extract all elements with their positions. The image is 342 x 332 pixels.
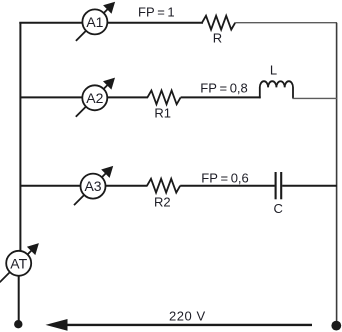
resistor R [202, 16, 235, 30]
inductor L [260, 81, 293, 98]
resistor R2 [147, 179, 180, 193]
wire 220 V arrow line [46, 319, 313, 331]
svg-text:FP = 0,6: FP = 0,6 [201, 171, 248, 186]
capacitor C [276, 172, 282, 199]
ammeter A1 [76, 2, 115, 41]
ammeter AT [0, 243, 39, 282]
svg-text:A1: A1 [86, 14, 103, 30]
node left (junction dot) [14, 320, 22, 328]
svg-text:R: R [213, 31, 222, 46]
wire top branch right segment [235, 22, 337, 24]
svg-text:220 V: 220 V [169, 309, 206, 324]
svg-text:L: L [270, 63, 277, 78]
wire branch 2 right segment [293, 97, 338, 99]
wire branch 3 right segment [282, 185, 337, 187]
wire branch 3 left segment [20, 185, 148, 187]
svg-text:A3: A3 [84, 178, 101, 194]
svg-text:FP = 0,8: FP = 0,8 [200, 81, 247, 96]
wire left vertical bus upper [19, 22, 21, 263]
svg-text:FP = 1: FP = 1 [138, 5, 175, 20]
wire right vertical bus [336, 23, 338, 326]
svg-text:AT: AT [10, 255, 27, 271]
ammeter A2 [76, 78, 115, 117]
svg-text:R1: R1 [154, 105, 171, 120]
resistor R1 [147, 91, 180, 105]
wire top branch left segment [19, 22, 203, 24]
wire left vertical bus lower [18, 263, 20, 324]
wire branch 2 left segment [20, 96, 148, 98]
wire branch 3 middle segment [180, 185, 275, 187]
svg-text:C: C [274, 201, 283, 216]
svg-text:A2: A2 [86, 90, 103, 106]
wire branch 2 middle segment [181, 96, 261, 98]
node right (junction dot) [331, 321, 341, 331]
svg-text:R2: R2 [154, 194, 171, 209]
ammeter A3 [74, 166, 113, 205]
